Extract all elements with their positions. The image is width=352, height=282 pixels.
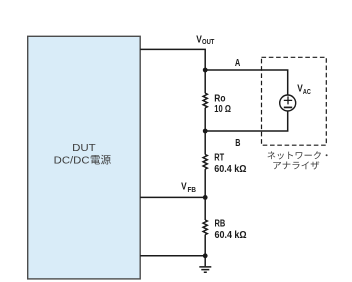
AC source plus sign (284, 96, 292, 104)
label アナライザ (273, 162, 281, 169)
svg-text:A: A (235, 58, 241, 69)
svg-text:60.4 kΩ: 60.4 kΩ (215, 230, 247, 241)
ground (199, 267, 211, 272)
label VAC (297, 84, 311, 96)
AC source minus bar (284, 106, 292, 108)
svg-text:RT: RT (214, 152, 224, 163)
svg-text:60.4 kΩ: 60.4 kΩ (214, 164, 246, 175)
DUT DC/DC converter block (28, 36, 141, 279)
resistor Ro (203, 93, 207, 108)
wire bottom: DUT return to ground node (140, 255, 205, 257)
wire RT bottom through node VFB to RB top (204, 169, 206, 220)
wire Ro bottom through node B to RT top (204, 108, 206, 155)
AC source VAC circle (280, 95, 296, 111)
svg-text:AC: AC (303, 89, 311, 96)
wire VOUT: DUT output to node A rail (140, 49, 205, 93)
wire RB bottom through ground node to ground symbol (204, 235, 206, 267)
svg-text:FB: FB (188, 187, 197, 194)
label DC/DC電源 (54, 155, 111, 167)
node A junction (203, 68, 208, 73)
label VOUT (196, 34, 215, 46)
wire VAC source bottom to node B (205, 111, 288, 131)
svg-text:10 Ω: 10 Ω (214, 104, 231, 115)
resistor RB (203, 220, 207, 235)
wire VFB: DUT feedback to rail (140, 196, 205, 198)
resistor RT (203, 155, 207, 170)
svg-text:OUT: OUT (202, 39, 215, 46)
svg-text:DUT: DUT (72, 143, 96, 154)
svg-text:RB: RB (215, 218, 226, 229)
svg-text:V: V (181, 181, 187, 192)
label ネットワーク・ (268, 151, 276, 159)
dashed network analyzer box (262, 57, 327, 145)
node VFB junction (203, 195, 208, 200)
node B junction (203, 129, 208, 134)
svg-text:DC/DC: DC/DC (54, 156, 90, 167)
node ground junction (203, 253, 208, 258)
svg-text:B: B (235, 138, 241, 149)
wire node A to VAC source top (205, 70, 288, 95)
label VFB (181, 181, 196, 193)
